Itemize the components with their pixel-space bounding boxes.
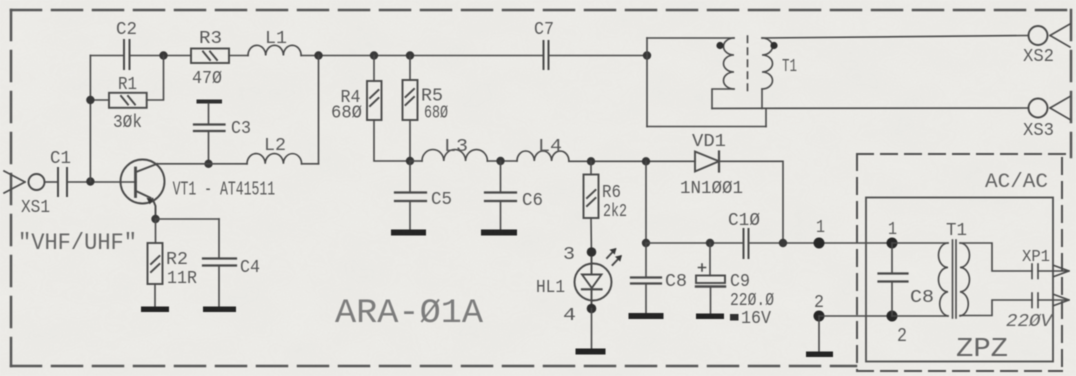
- wire R5 top: [409, 56, 411, 81]
- ground C5: [391, 230, 426, 236]
- T1 primary polarity dot: [716, 42, 723, 49]
- wire node2 to T1 ZPZ: [892, 315, 948, 317]
- resistor R6: [584, 175, 599, 219]
- wire T1 to XS2: [762, 36, 1029, 39]
- wire vertical feedback riser: [89, 56, 91, 182]
- junction rectifier tap node: [642, 157, 650, 165]
- ground R2: [141, 307, 169, 313]
- capacitor C6: [485, 161, 516, 230]
- wire R3 to L1: [229, 55, 248, 57]
- capacitor C3: [194, 100, 225, 164]
- junction base node: [86, 177, 94, 185]
- ground C9: [696, 314, 724, 320]
- capacitor C9 electrolytic: [696, 243, 725, 314]
- wire rectifier tap drop: [645, 161, 647, 243]
- wire R1 left branch: [90, 99, 109, 101]
- junction R5 top node: [406, 51, 414, 59]
- resistor R4: [367, 81, 382, 120]
- wire T1 to XS3: [712, 107, 1029, 109]
- wire node1 to T1 ZPZ: [892, 242, 948, 244]
- wire VD1 cathode: [719, 161, 783, 243]
- node 3: [587, 247, 597, 257]
- transistor VT1: [121, 160, 165, 220]
- wire XS1 to C1: [45, 181, 59, 183]
- junction R6 top node: [587, 157, 595, 165]
- LED HL1: [575, 248, 623, 304]
- connector XS1: [4, 171, 45, 193]
- diode VD1: [695, 152, 719, 172]
- ground C8: [629, 313, 664, 319]
- node 1 ZPZ: [887, 238, 898, 249]
- junction L2 riser node: [314, 51, 322, 59]
- wire R4 top: [373, 56, 375, 82]
- node 2 ZPZ: [887, 311, 898, 322]
- junction DC bus left: [642, 239, 650, 247]
- wire C2 right plate to R3: [130, 55, 192, 57]
- wire HL1 to ground: [591, 309, 593, 350]
- junction R4 top node: [370, 51, 378, 59]
- junction emitter node: [151, 215, 159, 223]
- junction VD1 drop: [779, 239, 787, 247]
- capacitor C8 ZPZ: [879, 243, 908, 316]
- inductor L4: [517, 151, 569, 161]
- label *16V: [730, 314, 739, 321]
- transformer T1 ZPZ: [939, 240, 1033, 318]
- junction C6 node: [496, 157, 504, 165]
- wire R1 right branch: [147, 56, 164, 101]
- power supply inner box: [866, 198, 1053, 362]
- wire C7 to T1: [549, 55, 648, 57]
- resistor R2: [148, 243, 163, 284]
- resistor R3: [191, 49, 229, 64]
- connector XS2: [1029, 24, 1071, 47]
- inductor L2: [247, 154, 302, 164]
- transformer T1: [647, 36, 773, 127]
- wire R6 top lead: [590, 161, 592, 174]
- node 2: [814, 311, 825, 322]
- ground C4: [203, 307, 236, 313]
- power supply ZPZ dashed outline: [857, 154, 1070, 371]
- capacitor C7: [544, 41, 549, 69]
- capacitor C4: [203, 219, 236, 307]
- wire L3 to L4: [487, 160, 517, 162]
- wire R2 to ground: [154, 284, 156, 307]
- inductor L3: [422, 150, 487, 162]
- resistor R1: [109, 93, 147, 108]
- wire to C2 left plate: [90, 55, 124, 57]
- junction T1 primary tap: [643, 51, 651, 59]
- wire R5 bottom: [409, 120, 411, 161]
- resistor R5: [403, 80, 418, 120]
- capacitor C1: [58, 168, 67, 196]
- plug XP1: [1032, 264, 1069, 308]
- wire collector to L2: [157, 163, 247, 165]
- wire emitter to C4: [156, 218, 220, 220]
- ground HL1: [576, 349, 606, 355]
- wire L4 to VD1 anode: [569, 160, 695, 162]
- junction C9 top: [706, 239, 714, 247]
- wire C1 to base of VT1: [67, 181, 136, 183]
- wire node 2 to ZPZ: [819, 315, 892, 317]
- junction C2/R1/R3 node: [159, 51, 167, 59]
- ground C6: [481, 230, 517, 236]
- node 4: [587, 304, 597, 314]
- inductor L1: [248, 45, 301, 55]
- capacitor C8: [631, 243, 661, 314]
- wire emitter to R2: [155, 219, 157, 243]
- T1 secondary polarity dot: [770, 42, 777, 49]
- wire DC bus: [646, 242, 744, 244]
- capacitor C10: [744, 229, 749, 258]
- wire L2 right to riser: [302, 163, 319, 165]
- ground node 2: [806, 352, 833, 358]
- capacitor C5: [395, 161, 426, 230]
- node 1: [814, 238, 825, 249]
- capacitor C2: [124, 40, 130, 69]
- junction R1 left node: [86, 96, 94, 104]
- scan noise overlay: [0, 0, 1, 1]
- wire R6 to HL1: [590, 218, 593, 257]
- wire L2 riser: [318, 56, 320, 164]
- connector XS3: [1029, 97, 1071, 120]
- wire DC bus right of C10: [749, 242, 893, 244]
- junction C3 bottom node: [204, 160, 212, 168]
- wire R4 bottom to L3 rail: [374, 120, 410, 161]
- junction C5 node: [406, 157, 414, 165]
- wire collector bus L1 to C7: [301, 55, 543, 57]
- wire L3 left lead: [410, 160, 422, 162]
- wire node 2 to ground: [818, 316, 820, 352]
